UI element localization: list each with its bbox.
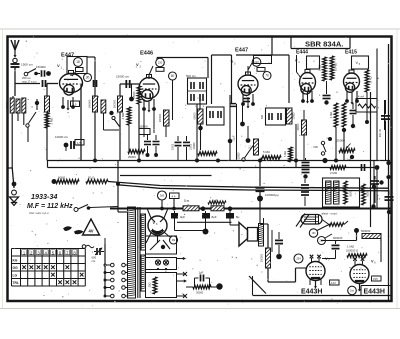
- top bus drop: [271, 38, 273, 56]
- switch right of table: [82, 245, 86, 249]
- svg-text:500000: 500000: [361, 229, 371, 233]
- ground symbol: [10, 197, 19, 202]
- right edge cap 400cm: [385, 100, 387, 114]
- series capacitor to V1: [15, 83, 40, 85]
- right edge verticals: [384, 100, 386, 130]
- band switch: [28, 112, 36, 124]
- bias box 1,5: [75, 140, 84, 146]
- tube V1 E447: [60, 74, 83, 93]
- IF can top wire: [157, 57, 208, 59]
- resistor 50000 osc: [198, 109, 204, 124]
- bus 208 thick: [110, 208, 392, 210]
- speaker transformer: [259, 224, 264, 247]
- coupling cap out: [335, 241, 337, 245]
- antenna: [11, 40, 15, 50]
- valve table: [12, 248, 86, 250]
- svg-text:1933-34: 1933-34: [31, 192, 57, 201]
- svg-text:4 4: 4 4: [172, 195, 176, 199]
- box 143: [330, 280, 340, 285]
- svg-text:155: 155: [373, 277, 378, 281]
- resistor 20000: [12, 96, 14, 98]
- page edge shading: [0, 28, 400, 30]
- long vertical x377: [376, 49, 378, 161]
- svg-text:5000: 5000: [350, 191, 353, 197]
- resistor 150000 vert: [266, 248, 271, 268]
- svg-text:30000: 30000: [297, 123, 300, 131]
- svg-text:200000: 200000: [159, 113, 162, 122]
- svg-text:E443H: E443H: [364, 289, 385, 296]
- rectifier V8: [148, 216, 167, 235]
- svg-text:18: 18: [76, 60, 80, 64]
- V4 screen box: [307, 56, 320, 69]
- svg-text:1 MΩ: 1 MΩ: [318, 65, 321, 71]
- bus 186 sloped: [108, 182, 388, 189]
- svg-text:E447: E447: [235, 48, 248, 54]
- lamp series resistor: [322, 220, 329, 225]
- cap 8uF b: [202, 213, 210, 219]
- output arrows: [177, 258, 185, 260]
- big filter cap 100000: [259, 161, 261, 187]
- svg-text:SBR 834A.: SBR 834A.: [305, 40, 343, 49]
- transformer terminals: [104, 244, 106, 296]
- circle 200: [318, 237, 326, 245]
- svg-text:cm.: cm.: [92, 259, 97, 263]
- caps left of box lower: [301, 184, 309, 186]
- coupling cap V1 anode: [93, 80, 95, 87]
- circle 360: [158, 191, 167, 200]
- svg-text:1 MΩ: 1 MΩ: [329, 112, 333, 118]
- chassis line: [253, 295, 392, 297]
- svg-text:20Ω: 20Ω: [148, 283, 152, 288]
- terminal feed wire: [104, 238, 106, 244]
- svg-text:10000: 10000: [191, 143, 193, 150]
- resistor 5 Mohm: [261, 156, 281, 160]
- svg-text:150000: 150000: [140, 126, 149, 129]
- svg-text:600Ω: 600Ω: [58, 176, 66, 180]
- svg-text:30000: 30000: [196, 291, 204, 295]
- svg-text:2 MΩ: 2 MΩ: [330, 171, 338, 175]
- resistor 2 Mohm: [45, 113, 49, 128]
- svg-text:70: 70: [265, 74, 269, 78]
- circle 254: [294, 254, 303, 263]
- svg-text:25000: 25000: [128, 155, 136, 159]
- resistor 200000: [16, 99, 20, 113]
- svg-text:300000: 300000: [113, 99, 116, 108]
- bus 183 with resistors: [52, 179, 57, 184]
- ground lead: [12, 168, 14, 189]
- wire x296: [295, 124, 297, 168]
- svg-text:4 mA: 4 mA: [358, 95, 364, 99]
- svg-text:15000 cm: 15000 cm: [116, 75, 130, 79]
- svg-text:KG: KG: [13, 259, 18, 263]
- cap 8uF a: [171, 213, 178, 219]
- variable cap 600cm: [94, 251, 96, 253]
- antenna switch: [24, 72, 28, 76]
- mid right resistor cluster: [334, 103, 338, 127]
- resistor 0.1uF box: [254, 139, 259, 155]
- resistor 25000 vert: [137, 86, 141, 104]
- svg-text:30: 30: [86, 76, 90, 80]
- tube V4 E444: [300, 73, 316, 92]
- mains vertical x118: [117, 161, 119, 207]
- svg-text:2 μF: 2 μF: [232, 135, 236, 141]
- avc network box: [356, 99, 377, 113]
- svg-text:5 MΩ: 5 MΩ: [263, 150, 270, 154]
- tube V2 E446: [139, 78, 159, 99]
- box 150000 mid: [139, 129, 150, 135]
- svg-text:50000: 50000: [193, 112, 196, 120]
- svg-text:9μF: 9μF: [180, 215, 185, 219]
- box 44: [170, 193, 180, 199]
- resistor 5 Mohm vertical: [289, 147, 293, 162]
- svg-text:163: 163: [312, 232, 317, 235]
- wire x236: [236, 104, 238, 161]
- caps under V3 pins: [242, 104, 244, 122]
- svg-text:250 cm: 250 cm: [22, 76, 32, 80]
- svg-text:5 MΩ: 5 MΩ: [284, 151, 287, 157]
- wire from circle 60 down: [172, 81, 174, 121]
- svg-text:20000: 20000: [6, 101, 9, 109]
- svg-text:100000 Ω: 100000 Ω: [346, 249, 358, 253]
- resistor 40000 horizontal: [198, 152, 217, 156]
- svg-text:1μF: 1μF: [199, 271, 204, 275]
- svg-text:100000μμ: 100000μμ: [265, 193, 279, 197]
- filter wiring: [175, 230, 206, 232]
- mains switch: [74, 208, 78, 212]
- padder box caps: [207, 107, 225, 125]
- tube V3 E447: [238, 75, 258, 93]
- svg-text:2 MΩ: 2 MΩ: [50, 118, 54, 125]
- speaker: [239, 223, 248, 247]
- power transformer: [128, 207, 136, 298]
- bus 167: [48, 167, 378, 169]
- svg-text:10000 cm: 10000 cm: [55, 135, 69, 139]
- svg-text:254: 254: [296, 256, 301, 260]
- wire x230 with 2uF: [229, 95, 231, 161]
- svg-text:230: 230: [158, 60, 163, 64]
- tube V7 E443H: [306, 262, 325, 281]
- resistor 25000 horiz: [128, 150, 145, 154]
- vertical wire left of diagonal: [252, 276, 254, 296]
- resistor below switch: [45, 96, 50, 112]
- circle Md: [170, 236, 178, 244]
- oscillator box: [211, 55, 213, 104]
- resistor 50 ohm: [86, 180, 108, 184]
- bus 189 sloped pair: [118, 185, 388, 191]
- svg-text:30000: 30000: [238, 152, 241, 159]
- svg-text:210: 210: [254, 60, 259, 64]
- electrolytic caps: [175, 141, 182, 143]
- V7 grid pins: [311, 258, 313, 263]
- tube V6 E443H: [350, 265, 369, 284]
- junction dot 2: [129, 97, 134, 102]
- right edge cap2: [385, 196, 394, 198]
- pilot lamp: [301, 215, 322, 225]
- long vertical x370: [370, 92, 372, 227]
- mid caps cluster: [144, 141, 151, 143]
- svg-text:400 cm: 400 cm: [379, 129, 382, 137]
- resistor 0.5 Mohm: [330, 56, 334, 80]
- svg-text:8μ: 8μ: [236, 215, 240, 219]
- svg-text:100000: 100000: [87, 99, 91, 108]
- fuse box: [146, 236, 177, 254]
- resistor 2Mohm mid: [127, 107, 131, 125]
- resistor 50000: [22, 98, 26, 113]
- V1 pins: [62, 97, 64, 106]
- zigzag over filter resistor b: [208, 201, 226, 204]
- svg-text:360: 360: [160, 193, 165, 197]
- V6 grid pins: [354, 261, 356, 266]
- V5 box: [352, 56, 369, 69]
- svg-text:a.s.g.: a.s.g.: [376, 194, 379, 200]
- V5 pins: [346, 91, 348, 100]
- wire V1 anode 100000: [87, 56, 96, 58]
- svg-text:5 m: 5 m: [184, 199, 190, 203]
- speaker ground diagonal: [249, 276, 266, 294]
- resistor 5000 right of box: [362, 184, 366, 205]
- svg-text:TRL: TRL: [13, 281, 19, 285]
- IF transformer can B: [266, 108, 286, 125]
- svg-text:20000: 20000: [293, 112, 296, 119]
- svg-text:500 cm: 500 cm: [186, 74, 196, 78]
- cap output node: [278, 232, 280, 239]
- switch DR: [321, 141, 324, 144]
- switch under V3: [245, 144, 255, 159]
- svg-text:50 Ω: 50 Ω: [88, 176, 95, 180]
- svg-text:GG: GG: [13, 266, 19, 270]
- resistor 2 Mohm on bus: [330, 166, 346, 170]
- junction dot: [35, 101, 39, 105]
- pincers icon: [63, 226, 72, 231]
- grid bus 240: [321, 240, 357, 242]
- wire below 36K resistor: [366, 92, 368, 122]
- svg-text:5000: 5000: [366, 191, 369, 197]
- svg-text:25000: 25000: [337, 139, 346, 143]
- warning triangle 4V: [83, 219, 100, 235]
- svg-text:600000: 600000: [333, 236, 343, 240]
- svg-text:0,5: 0,5: [73, 103, 77, 107]
- svg-text:2 MΩ: 2 MΩ: [121, 113, 125, 120]
- bus 174: [120, 175, 212, 177]
- V2 pins: [143, 99, 145, 108]
- circle 163: [309, 229, 317, 237]
- svg-text:500: 500: [261, 114, 264, 119]
- svg-text:36 KΩ: 36 KΩ: [370, 76, 373, 83]
- switch mid: [109, 111, 113, 115]
- svg-text:1μF: 1μF: [347, 158, 352, 162]
- V1 grid cap box: [67, 57, 87, 74]
- vertical wire x374: [373, 161, 375, 209]
- svg-text:E444: E444: [296, 50, 308, 56]
- cap asg right: [371, 180, 379, 182]
- capacitor 250cm: [36, 73, 40, 75]
- V3 can lines: [236, 54, 289, 56]
- svg-text:150000: 150000: [36, 65, 46, 69]
- svg-text:40000: 40000: [193, 142, 196, 149]
- svg-text:4V: 4V: [88, 229, 93, 234]
- V3 pins: [242, 94, 244, 103]
- svg-text:LG: LG: [13, 274, 18, 278]
- paper noise speckle: [11, 34, 391, 306]
- svg-text:60: 60: [171, 74, 175, 78]
- svg-text:E415: E415: [345, 50, 357, 56]
- caps left of box upper: [302, 162, 310, 164]
- svg-text:30000: 30000: [173, 143, 175, 150]
- V4 pins: [302, 91, 304, 100]
- output transformer box: [323, 178, 360, 207]
- resistor 20 ohm box: [146, 273, 177, 298]
- svg-text:2nd: 2nd: [350, 289, 355, 292]
- svg-text:E446: E446: [140, 51, 153, 57]
- svg-text:0,5 MΩ: 0,5 MΩ: [335, 63, 338, 71]
- antenna capacitor 1500cm: [13, 58, 17, 62]
- svg-text:Inst. voor n.p.v.: Inst. voor n.p.v.: [29, 211, 49, 215]
- cap below V4 resistors: [326, 81, 328, 94]
- resistor 1 Mohm V4: [323, 57, 327, 81]
- resistor 36K right of V5: [365, 70, 369, 92]
- svg-text:M.F = 112 kHz: M.F = 112 kHz: [27, 203, 73, 210]
- lamp box: [146, 258, 177, 270]
- bus 160: [47, 160, 390, 162]
- output feed wires: [267, 224, 269, 282]
- svg-text:E443H: E443H: [301, 289, 322, 296]
- cap 8uF c: [226, 213, 234, 219]
- bias box 0,5: [71, 101, 80, 107]
- box 155: [372, 276, 382, 281]
- circle 2nd: [348, 286, 357, 295]
- resistor 300000: [118, 96, 123, 112]
- svg-text:25000: 25000: [132, 91, 136, 99]
- svg-text:8μF: 8μF: [212, 215, 217, 219]
- schematic border frame: [8, 37, 392, 302]
- tube V5 E415: [344, 73, 360, 90]
- title box SBR 834A: [290, 38, 292, 49]
- svg-text:143: 143: [331, 281, 336, 285]
- svg-text:afsch - mont.: afsch - mont.: [322, 212, 338, 216]
- resistor 200000 mid: [164, 110, 170, 126]
- svg-text:150000: 150000: [260, 253, 263, 262]
- svg-text:1500 cm: 1500 cm: [21, 63, 33, 67]
- resistor 600 ohm: [56, 180, 79, 184]
- resistor 20000 beside can B: [287, 108, 293, 124]
